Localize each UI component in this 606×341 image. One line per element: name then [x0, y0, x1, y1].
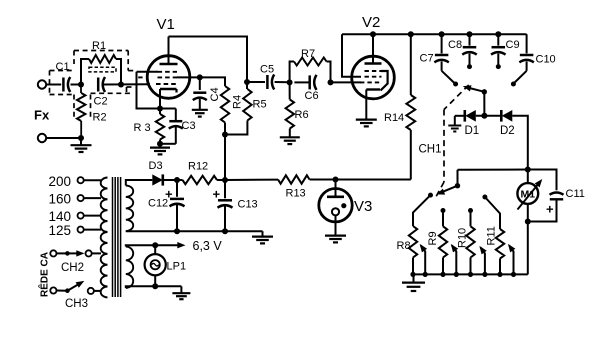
V1 screen lead [177, 76, 200, 78]
switch CH3 [50, 281, 101, 310]
node R8 contact [428, 193, 433, 198]
wire [71, 84, 82, 86]
capacitor C3 [160, 109, 196, 144]
node R11 contact [482, 195, 487, 200]
capacitor C6 [305, 75, 319, 102]
node junction [152, 283, 158, 289]
transformer T1 primary winding [101, 178, 108, 298]
svg-text:+: + [213, 187, 221, 202]
wire [163, 179, 177, 181]
V2 screen feed from rail [342, 34, 361, 76]
node junction [174, 177, 180, 183]
pot bottom rail [413, 273, 528, 275]
node junction [78, 135, 84, 141]
shield dashed lower-left edge [50, 94, 75, 96]
V3 cathode circle [332, 208, 339, 215]
svg-text:C8: C8 [448, 39, 462, 51]
node junction [525, 167, 531, 173]
svg-text:R4: R4 [232, 95, 244, 109]
wire [455, 115, 465, 117]
node R9 contact [441, 208, 446, 213]
tube V3 regulator [319, 189, 373, 222]
node junction [497, 272, 502, 277]
shield dashed bottom edge [91, 92, 133, 94]
stray capacitance dashed box [89, 67, 116, 72]
node junction [152, 242, 158, 248]
potentiometer R10 [457, 211, 475, 275]
V1 grid row 3 control [156, 83, 177, 85]
tap 200 terminal [49, 174, 102, 189]
capacitor C7 [420, 34, 455, 82]
node B junction [118, 82, 124, 88]
V2 grid row 1 [365, 70, 382, 72]
node junction [439, 31, 445, 37]
node junction [525, 219, 531, 225]
node junction [468, 272, 473, 277]
V1 grid stub in shield box [138, 76, 142, 78]
selector SW1 wiper [463, 85, 487, 94]
tap 160 terminal [49, 192, 102, 207]
6.3V arrow [155, 239, 222, 253]
svg-text:+: + [546, 202, 554, 217]
svg-text:125: 125 [49, 223, 72, 238]
shield dashed left edge [49, 71, 51, 95]
capacitor C8 [448, 34, 477, 64]
svg-text:C10: C10 [536, 54, 556, 66]
wire to V2 grid [331, 81, 362, 83]
svg-text:R8: R8 [397, 240, 411, 252]
node junction [423, 272, 428, 277]
node junction [482, 272, 487, 277]
diode D2 [500, 110, 515, 137]
resistor R5 [225, 82, 267, 135]
svg-text:V2: V2 [362, 14, 380, 31]
V1 grid row 1 [158, 71, 178, 73]
potentiometer R9 [427, 211, 447, 275]
node junction [157, 141, 163, 147]
switch CH2 [50, 250, 101, 274]
node junction [467, 31, 473, 37]
resistor R7 [290, 48, 331, 82]
svg-text:6,3 V: 6,3 V [193, 239, 223, 253]
svg-text:R2: R2 [93, 112, 107, 124]
D1 ground return [448, 116, 461, 132]
svg-text:Fx: Fx [34, 108, 50, 123]
shield dashed left edge upper [73, 51, 75, 65]
resistor R13 [278, 175, 310, 199]
svg-text:R6: R6 [295, 109, 309, 121]
capacitor C4 [193, 77, 221, 109]
V1 plate [160, 37, 178, 65]
shield dashed notch [127, 87, 133, 93]
svg-text:LP1: LP1 [167, 261, 187, 273]
node plate junction [244, 79, 250, 85]
ground [280, 137, 300, 144]
shield dashed step left [50, 70, 75, 72]
node junction [440, 272, 445, 277]
resistor R1 with feedback loop [81, 40, 121, 85]
svg-text:C6: C6 [305, 90, 319, 102]
node C7 contact [453, 82, 458, 87]
svg-text:C11: C11 [566, 188, 585, 200]
R11 wiper arm [508, 244, 515, 275]
wire [275, 81, 290, 83]
wire [310, 179, 411, 181]
V2 diode plate flag [381, 71, 388, 91]
linkage CH1 dashed [419, 85, 469, 200]
svg-text:R5: R5 [253, 99, 267, 111]
node V1 screen junction [197, 74, 203, 80]
svg-text:R7: R7 [301, 48, 315, 60]
wire [46, 137, 81, 139]
V1 plate rail [169, 37, 248, 83]
svg-text:R14: R14 [384, 112, 404, 124]
shield dashed pocket right [90, 95, 92, 118]
V2 cathode ground [356, 120, 377, 127]
V3 cathode lead [335, 215, 337, 235]
V3 plate [327, 180, 344, 197]
resistor R14 [384, 34, 415, 179]
node C9 contact [496, 64, 501, 69]
wire down to pot rail [527, 222, 529, 275]
label Fx [34, 108, 50, 123]
diode D1 [465, 110, 480, 137]
V1 suppressor tie [137, 72, 161, 109]
node junction [454, 272, 459, 277]
V2 grid row 2 screen [365, 76, 382, 78]
wire to V1 grid [103, 83, 150, 85]
shield dashed jut to tube [128, 70, 135, 72]
svg-text:R9: R9 [427, 231, 439, 245]
svg-text:CH2: CH2 [61, 262, 84, 274]
wire [200, 77, 225, 86]
svg-text:C7: C7 [420, 53, 434, 65]
node junction [287, 79, 293, 85]
svg-text:D2: D2 [500, 125, 515, 137]
svg-text:CH3: CH3 [65, 298, 88, 310]
V1 cathode [160, 89, 177, 109]
tap 140 terminal [49, 209, 102, 224]
svg-text:D1: D1 [465, 125, 480, 137]
transformer core [113, 177, 121, 297]
node V3 junction [333, 177, 339, 183]
svg-text:200: 200 [49, 174, 72, 189]
filament bottom wire [126, 286, 182, 288]
node C8 contact [467, 64, 472, 69]
node junction [328, 79, 334, 85]
capacitor C12 electrolytic [148, 180, 185, 231]
svg-text:C9: C9 [506, 39, 520, 51]
node R4 R5 junction [222, 132, 228, 138]
ground [402, 274, 425, 291]
ground [252, 231, 273, 243]
wire wiper to detector [483, 92, 485, 116]
wire [476, 115, 502, 117]
node junction [481, 113, 487, 119]
tube V1 envelope [147, 16, 190, 98]
transformer HT secondary winding [126, 186, 133, 232]
capacitor C2 [94, 77, 108, 108]
svg-text:C13: C13 [238, 199, 258, 211]
V1 grid row 2 screen [158, 76, 178, 78]
capacitor C9 [491, 34, 520, 64]
node junction [511, 272, 516, 277]
V3 gas dot [341, 203, 346, 208]
V2 plate [365, 34, 382, 63]
svg-text:V3: V3 [354, 198, 372, 215]
supply bottom rail [126, 230, 263, 232]
node R14 junction [408, 31, 414, 37]
input terminal J1 top [38, 80, 46, 88]
svg-text:R10: R10 [457, 228, 469, 248]
svg-text:R12: R12 [188, 161, 208, 173]
ground [325, 236, 346, 243]
B+ top rail [342, 33, 527, 35]
svg-text:RÊDE CA: RÊDE CA [38, 252, 51, 297]
R9 wiper arm [451, 244, 458, 275]
node B+ junction [222, 177, 228, 183]
diode D3 [149, 160, 163, 186]
shield dashed right edge [127, 51, 129, 71]
resistor R12 [177, 161, 225, 185]
wire [294, 81, 309, 83]
label REDE CA mains [38, 252, 51, 297]
svg-text:R13: R13 [286, 188, 306, 200]
meter rail [458, 169, 528, 171]
selector SW2 wiper [436, 183, 460, 195]
V1 cathode node [157, 106, 163, 112]
shield dashed box top edge [74, 50, 128, 52]
svg-text:C3: C3 [182, 120, 196, 132]
ground [71, 138, 92, 152]
V2 cathode [366, 90, 380, 120]
svg-text:+: + [165, 187, 173, 202]
wire to B+ rail [224, 135, 226, 181]
lamp LP1 [145, 245, 186, 286]
tap 125 terminal [49, 223, 102, 238]
svg-text:R11: R11 [486, 226, 498, 245]
transformer filament winding [126, 246, 133, 287]
wire [225, 179, 278, 181]
potentiometer R11 [485, 197, 504, 274]
resistor R2 [77, 85, 107, 139]
node junction [410, 272, 415, 277]
svg-text:D3: D3 [149, 160, 163, 172]
ground [150, 144, 170, 155]
svg-text:C5: C5 [260, 64, 274, 76]
capacitor C11 [528, 170, 585, 222]
svg-text:140: 140 [49, 209, 72, 224]
wire [512, 116, 528, 170]
resistor R6 [286, 82, 309, 137]
capacitor C13 electrolytic [213, 180, 258, 231]
tube V2 envelope [352, 14, 395, 99]
svg-text:CH1: CH1 [419, 144, 442, 156]
node A junction [78, 82, 84, 88]
potentiometer R8 [397, 195, 431, 274]
resistor R3 [134, 109, 165, 144]
R10 wiper arm [479, 246, 486, 275]
wire [457, 170, 459, 186]
svg-text:R 3: R 3 [134, 122, 151, 134]
svg-text:C4: C4 [209, 87, 221, 101]
wire [46, 84, 61, 86]
R8 wiper arm [420, 244, 427, 275]
filament top wire [126, 245, 155, 246]
wire HT secondary to D3 [126, 180, 153, 186]
meter M1 [517, 170, 542, 222]
capacitor C10 [515, 34, 556, 82]
capacitor C5 [247, 64, 274, 90]
node R10 contact [468, 208, 473, 213]
ground [172, 286, 190, 299]
node junction [495, 31, 501, 37]
svg-text:160: 160 [49, 192, 72, 207]
ground [192, 110, 208, 117]
node junction [222, 228, 228, 234]
node junction [174, 228, 180, 234]
input terminal J2 bottom [38, 134, 46, 142]
node C10 contact [511, 82, 516, 87]
node V2 plate junction [370, 31, 376, 37]
shield dashed pocket left [73, 95, 75, 119]
svg-text:C2: C2 [94, 96, 108, 108]
resistor R4 [221, 86, 244, 135]
svg-text:V1: V1 [157, 16, 175, 33]
V2 grid row 3 control [360, 81, 382, 83]
capacitor C1 [56, 61, 71, 92]
